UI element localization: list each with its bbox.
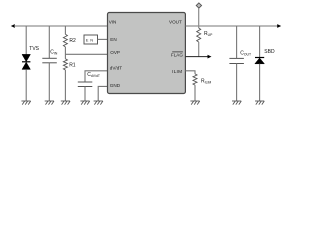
- capacitor CdVdT: [78, 72, 100, 87]
- svg-text:N: N: [90, 37, 93, 42]
- wire divider middle: [64, 47, 66, 59]
- svg-text:dV/dT: dV/dT: [110, 66, 122, 71]
- ground RILIM: [190, 101, 199, 105]
- wire VOUT rail: [185, 25, 277, 27]
- wire GND pin: [98, 86, 107, 101]
- wire COUT branch: [236, 26, 238, 58]
- svg-text:SBD: SBD: [264, 49, 275, 55]
- output arrow: [277, 24, 281, 28]
- wire FLAG: [185, 56, 207, 58]
- svg-text:RILIM: RILIM: [201, 79, 211, 85]
- op-amp U1 IC body: [108, 13, 186, 94]
- input arrow: [11, 24, 15, 28]
- capacitor CIN: [42, 50, 58, 63]
- svg-text:VIN: VIN: [109, 20, 117, 25]
- svg-text:E: E: [86, 37, 89, 42]
- wire VIN rail: [14, 25, 108, 27]
- wire SBD to ground: [259, 64, 261, 101]
- EN source box: [84, 35, 98, 44]
- wire CdVdT to ground: [84, 87, 86, 102]
- wire diamond to RUP: [198, 8, 200, 28]
- capacitor COUT: [229, 50, 251, 63]
- wire RUP to FLAG line: [198, 42, 200, 57]
- wire TVS to ground: [25, 69, 27, 101]
- svg-text:EN: EN: [110, 37, 116, 42]
- resistor RILIM: [193, 74, 211, 85]
- svg-text:ILIM: ILIM: [172, 69, 182, 75]
- TVS D1: [22, 46, 40, 69]
- svg-text:RUP: RUP: [204, 31, 213, 37]
- FLAG arrow: [208, 55, 212, 59]
- wire R1 to ground: [64, 70, 66, 101]
- diode SBD: [255, 49, 275, 64]
- svg-text:GND: GND: [110, 83, 121, 88]
- wire COUT to ground: [236, 64, 238, 102]
- wire TVS branch: [25, 26, 27, 55]
- ground R1: [61, 101, 70, 105]
- resistor R2: [63, 34, 76, 47]
- svg-text:R2: R2: [69, 38, 76, 44]
- wire CIN to ground: [48, 63, 50, 101]
- ground COUT: [232, 101, 241, 105]
- resistor R1: [63, 59, 75, 70]
- wire divider top branch: [64, 26, 66, 34]
- wire SBD branch: [259, 26, 261, 58]
- svg-text:VOUT: VOUT: [169, 20, 182, 25]
- ground SBD: [255, 101, 264, 105]
- svg-text:R1: R1: [69, 62, 76, 68]
- ground TVS: [21, 101, 30, 105]
- ground GND pin: [94, 101, 103, 105]
- svg-text:TVS: TVS: [29, 46, 39, 52]
- wire RILIM to ground: [194, 85, 196, 101]
- wire EN: [98, 38, 108, 40]
- wire dVdT: [85, 71, 108, 82]
- svg-text:FLAG: FLAG: [171, 53, 183, 58]
- wire ILIM: [185, 71, 195, 74]
- svg-text:CIN: CIN: [50, 50, 58, 56]
- svg-text:CdV/dT: CdV/dT: [87, 72, 100, 78]
- svg-text:OVP: OVP: [110, 50, 120, 55]
- wire CIN top branch: [48, 26, 50, 58]
- node VOUT diamond: [196, 3, 201, 8]
- svg-text:COUT: COUT: [240, 50, 251, 56]
- ground CdVdT: [80, 101, 89, 105]
- ground CIN: [45, 101, 54, 105]
- wire OVP tap: [65, 53, 107, 55]
- resistor RUP: [197, 28, 213, 42]
